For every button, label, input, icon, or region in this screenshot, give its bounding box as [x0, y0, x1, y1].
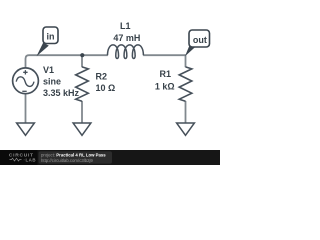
svg-text:R2: R2 — [96, 71, 108, 81]
CircuitLab logo resistor glyph — [10, 158, 22, 161]
svg-text:L1: L1 — [120, 21, 131, 31]
wire R1 top stub — [185, 54, 187, 67]
node junction dot on rail at R2 — [80, 53, 84, 57]
inductor L1 coil — [108, 45, 144, 59]
watermark project panel — [39, 151, 113, 163]
wire top-left corner from V1 up to rail — [26, 55, 108, 67]
resistor R1 — [179, 67, 192, 101]
svg-text:http://circuitlab.com/c3lb2j9: http://circuitlab.com/c3lb2j9 — [41, 158, 93, 163]
ground under R1 — [177, 123, 195, 135]
node flag "out" box — [189, 30, 210, 47]
svg-text:project: Practical 4 RL Low Pa: project: Practical 4 RL Low Pass — [41, 152, 106, 157]
voltage source V1 sine — [13, 68, 39, 94]
svg-text:3.35 kHz: 3.35 kHz — [43, 88, 80, 98]
svg-text:V1: V1 — [43, 65, 54, 75]
wire V1 bottom to ground — [25, 94, 27, 123]
wire top-right rail — [143, 54, 185, 56]
node flag "in" leader — [37, 43, 49, 57]
svg-text:·LAB: ·LAB — [24, 157, 37, 162]
svg-text:R1: R1 — [159, 69, 171, 79]
svg-text:sine: sine — [43, 77, 61, 87]
svg-text:in: in — [47, 32, 55, 42]
ground under R2 — [73, 123, 91, 135]
node flag "out" leader — [185, 43, 196, 56]
ground under V1 — [17, 123, 35, 135]
wire R2 top stub — [81, 54, 83, 67]
wire R1 bottom stub — [185, 101, 187, 123]
logo black zone — [0, 150, 38, 165]
wire R2 bottom stub — [81, 101, 83, 123]
svg-text:47 mH: 47 mH — [113, 33, 140, 43]
svg-text:1 kΩ: 1 kΩ — [155, 81, 175, 91]
resistor R2 — [76, 67, 89, 101]
svg-text:out: out — [193, 35, 207, 45]
svg-text:10 Ω: 10 Ω — [96, 83, 116, 93]
watermark bar — [0, 150, 220, 165]
node flag "in" box — [43, 27, 58, 44]
